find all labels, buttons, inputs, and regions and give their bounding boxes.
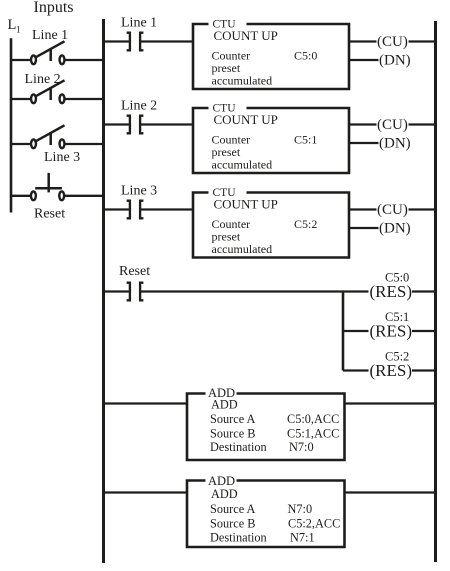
svg-text:N7:0: N7:0	[288, 502, 313, 516]
svg-text:Line 1: Line 1	[32, 28, 68, 43]
svg-text:C5:0,ACC: C5:0,ACC	[287, 412, 339, 426]
svg-text:COUNT UP: COUNT UP	[214, 112, 278, 127]
svg-text:COUNT UP: COUNT UP	[214, 28, 278, 43]
svg-text:(DN): (DN)	[379, 136, 411, 152]
svg-text:Destination: Destination	[210, 440, 267, 454]
svg-text:(CU): (CU)	[377, 34, 408, 50]
svg-text:Source A: Source A	[210, 412, 256, 426]
svg-text:Reset: Reset	[119, 264, 150, 279]
svg-text:Destination: Destination	[210, 530, 267, 544]
svg-text:(RES): (RES)	[370, 361, 413, 380]
svg-text:accumulated: accumulated	[212, 242, 273, 256]
svg-text:COUNT UP: COUNT UP	[214, 197, 278, 212]
svg-text:Source B: Source B	[210, 516, 255, 530]
svg-text:(RES): (RES)	[370, 282, 413, 301]
svg-text:ADD: ADD	[208, 474, 235, 488]
svg-text:(CU): (CU)	[377, 117, 408, 133]
svg-text:ADD: ADD	[211, 487, 238, 501]
svg-text:Inputs: Inputs	[34, 0, 74, 16]
svg-text:Source A: Source A	[210, 502, 256, 516]
svg-text:Line 3: Line 3	[121, 184, 157, 199]
svg-text:(DN): (DN)	[379, 53, 411, 69]
svg-text:C5:0: C5:0	[294, 49, 317, 63]
svg-text:accumulated: accumulated	[212, 74, 273, 88]
svg-text:Line 2: Line 2	[121, 99, 157, 114]
svg-text:Line 2: Line 2	[25, 72, 61, 87]
svg-text:N7:1: N7:1	[290, 530, 315, 544]
svg-text:1: 1	[16, 25, 21, 35]
svg-text:N7:0: N7:0	[289, 440, 314, 454]
svg-text:(RES): (RES)	[370, 321, 413, 340]
svg-text:C5:1,ACC: C5:1,ACC	[287, 426, 339, 440]
svg-text:accumulated: accumulated	[212, 158, 273, 172]
svg-text:(CU): (CU)	[377, 202, 408, 218]
svg-text:Reset: Reset	[34, 206, 65, 221]
svg-text:Line 3: Line 3	[44, 150, 80, 165]
svg-text:C5:2,ACC: C5:2,ACC	[288, 516, 340, 530]
svg-text:(DN): (DN)	[379, 221, 411, 237]
svg-text:Line 1: Line 1	[121, 16, 157, 31]
svg-text:Source B: Source B	[210, 426, 255, 440]
svg-text:C5:2: C5:2	[294, 217, 317, 231]
svg-text:ADD: ADD	[211, 398, 238, 412]
svg-text:C5:1: C5:1	[294, 133, 317, 147]
